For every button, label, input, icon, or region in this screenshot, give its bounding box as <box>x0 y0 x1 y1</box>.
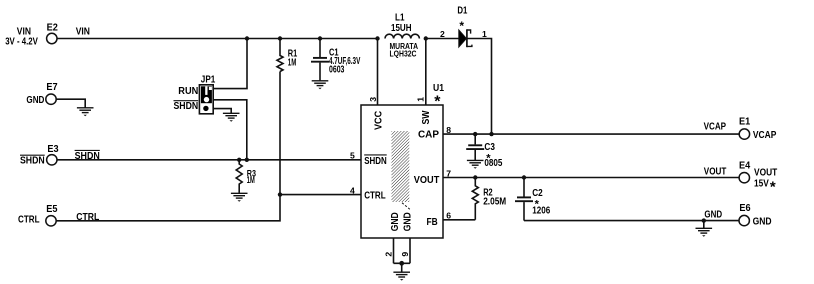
svg-text:0805: 0805 <box>484 158 502 169</box>
wire CTRL to U1 pin4 <box>280 185 361 195</box>
svg-text:GND: GND <box>26 95 44 106</box>
wire L1 to D1 <box>426 29 459 39</box>
svg-text:2: 2 <box>440 29 445 39</box>
terminal E5 <box>18 204 58 226</box>
svg-text:E2: E2 <box>47 22 59 33</box>
node junction VCAP/D1 <box>489 132 493 136</box>
svg-text:15V: 15V <box>754 179 769 190</box>
inductor L1 <box>385 13 419 59</box>
node junction VOUT/C2 <box>522 175 526 179</box>
capacitor C2 <box>515 178 551 221</box>
wire U1 pin9 GND <box>400 238 410 263</box>
wire SHDN net <box>57 150 361 162</box>
svg-text:C3: C3 <box>484 142 495 153</box>
terminal E6 <box>739 203 772 228</box>
svg-text:2.05M: 2.05M <box>483 196 506 207</box>
svg-text:VOUT: VOUT <box>414 175 440 186</box>
terminal E3 <box>20 144 59 167</box>
svg-text:9: 9 <box>400 252 410 257</box>
svg-text:SHDN: SHDN <box>174 101 199 112</box>
svg-text:E4: E4 <box>739 160 751 171</box>
svg-text:SHDN: SHDN <box>75 151 100 162</box>
svg-text:GND: GND <box>403 212 414 231</box>
svg-text:1M: 1M <box>247 175 255 185</box>
svg-text:1M: 1M <box>288 57 297 68</box>
terminal E7 <box>26 82 58 106</box>
node junction VIN/C1 <box>318 36 322 40</box>
ground at R3 <box>231 193 248 201</box>
svg-text:6: 6 <box>446 211 451 221</box>
node junction SHDN/R3 <box>237 158 241 162</box>
node junction VIN/L1/VCC <box>375 36 379 40</box>
wire VOUT net <box>443 167 739 179</box>
svg-text:E3: E3 <box>47 144 59 155</box>
svg-text:CTRL: CTRL <box>18 215 40 226</box>
ground at C3 <box>467 160 484 168</box>
svg-text:E1: E1 <box>739 116 751 127</box>
node junction U1 ground <box>399 261 404 266</box>
resistor R1 <box>277 39 298 72</box>
svg-text:2: 2 <box>383 252 393 257</box>
wire U1 pin1 SW <box>415 39 425 106</box>
svg-text:SW: SW <box>421 110 432 124</box>
ground at GND line <box>696 228 713 236</box>
svg-text:1206: 1206 <box>532 205 550 216</box>
wire GND stub <box>703 221 705 228</box>
node junction SHDN/JP1 <box>245 158 249 162</box>
wire JP1 pin1 to VIN <box>213 39 247 89</box>
svg-text:VOUT: VOUT <box>704 167 727 178</box>
svg-text:GND: GND <box>753 216 772 227</box>
svg-text:VIN: VIN <box>76 27 90 38</box>
wire joining pin2/pin9 <box>394 262 411 264</box>
wire JP1 pin3 to ground <box>213 109 231 113</box>
diode D1 <box>457 5 472 47</box>
svg-text:E7: E7 <box>46 82 58 93</box>
jumper JP1 <box>174 75 216 114</box>
svg-text:E6: E6 <box>739 203 751 214</box>
svg-text:GND: GND <box>704 210 722 221</box>
svg-text:VCC: VCC <box>374 111 385 130</box>
node junction VIN/R1 <box>278 36 282 40</box>
svg-text:7: 7 <box>446 168 451 178</box>
wire JP1 pin2 to SHDN net <box>213 100 247 160</box>
terminal E4 <box>739 160 777 195</box>
node junction CTRL/R1 <box>278 192 282 196</box>
svg-text:1: 1 <box>482 29 487 39</box>
svg-text:C2: C2 <box>532 188 543 199</box>
svg-text:RUN: RUN <box>178 86 198 97</box>
capacitor C3 <box>466 134 503 169</box>
svg-text:5: 5 <box>350 151 355 161</box>
svg-text:*: * <box>459 19 464 33</box>
svg-text:SHDN: SHDN <box>364 156 387 167</box>
svg-text:CTRL: CTRL <box>364 191 386 202</box>
wire CTRL net <box>57 195 280 223</box>
node junction VCAP/C3 <box>473 132 477 136</box>
node junction L1/SW <box>424 36 428 40</box>
terminal E2 <box>5 22 58 47</box>
IC U1 <box>361 83 444 238</box>
svg-text:SHDN: SHDN <box>20 156 45 167</box>
svg-text:FB: FB <box>427 217 438 228</box>
terminal E1 <box>739 116 777 141</box>
capacitor C1 <box>311 39 361 81</box>
svg-text:L1: L1 <box>395 13 405 24</box>
ground at C1 <box>312 81 329 89</box>
svg-text:CTRL: CTRL <box>76 212 99 223</box>
wire R1 to CTRL node <box>279 72 281 195</box>
svg-text:LQH32C: LQH32C <box>390 50 417 59</box>
svg-text:E5: E5 <box>46 204 58 215</box>
ground at JP1 <box>223 113 240 121</box>
node junction VOUT/R2 <box>473 175 477 179</box>
svg-text:15UH: 15UH <box>391 23 412 34</box>
wire U1 pin2 GND <box>383 238 393 263</box>
ground at U1 <box>393 272 410 280</box>
svg-text:GND: GND <box>390 212 401 231</box>
svg-text:1: 1 <box>415 97 425 102</box>
node junction VIN/JP1 <box>245 36 249 40</box>
svg-text:4: 4 <box>350 185 355 195</box>
svg-text:3: 3 <box>368 97 378 102</box>
svg-text:3V - 4.2V: 3V - 4.2V <box>5 36 38 47</box>
svg-text:VCAP: VCAP <box>704 121 727 132</box>
wire VCAP net <box>443 121 739 135</box>
wire FB to R2 <box>443 211 475 221</box>
wire U1 ground stub <box>401 263 403 272</box>
svg-text:8: 8 <box>446 125 451 135</box>
svg-text:VCAP: VCAP <box>753 130 777 141</box>
node junction GND <box>702 218 706 222</box>
svg-text:*: * <box>770 179 776 196</box>
svg-text:D1: D1 <box>457 5 467 16</box>
svg-text:JP1: JP1 <box>201 75 216 86</box>
wire U1 pin3 VCC <box>368 39 378 106</box>
svg-text:CAP: CAP <box>418 129 439 140</box>
wire GND net <box>524 210 739 221</box>
svg-text:*: * <box>434 94 441 111</box>
wire VIN <box>57 27 378 39</box>
wire D1 to VCAP node <box>468 29 492 134</box>
ground at E7 <box>77 108 94 116</box>
svg-text:VOUT: VOUT <box>754 168 777 179</box>
wire E7 to ground <box>57 99 86 107</box>
resistor R2 <box>472 178 506 220</box>
svg-text:0603: 0603 <box>329 65 345 76</box>
svg-text:U1: U1 <box>433 83 444 94</box>
resistor R3 <box>236 160 256 193</box>
